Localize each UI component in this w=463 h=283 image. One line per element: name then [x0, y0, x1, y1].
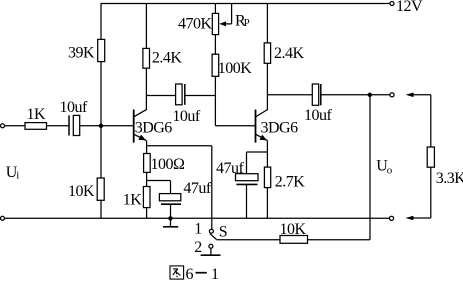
- svg-text:3DG6: 3DG6: [261, 120, 299, 137]
- capacitor C3 10uf output: [312, 84, 318, 105]
- resistor R 100K: [212, 54, 219, 76]
- terminal output top: [390, 93, 394, 97]
- wire C3 to output terminal: [321, 94, 390, 96]
- potentiometer RP wiper arrow: [231, 4, 233, 24]
- wire collector2 to C3: [267, 94, 312, 96]
- capacitor C4 47uf plates: [159, 194, 180, 201]
- svg-text:6: 6: [186, 266, 194, 283]
- capacitor C5 47uf plates: [236, 174, 259, 181]
- svg-text:2.7K: 2.7K: [275, 174, 306, 191]
- terminal +12V supply: [390, 2, 394, 6]
- capacitor C5 47uf branch wire: [246, 152, 248, 174]
- transistor Q1 3DG6: [133, 110, 135, 143]
- svg-text:39K: 39K: [68, 45, 95, 62]
- capacitor C4 47uf branch wire: [170, 181, 172, 194]
- svg-text:1K: 1K: [123, 191, 143, 208]
- svg-text:47uf: 47uf: [216, 160, 245, 177]
- wire C1 to base node: [80, 125, 134, 127]
- svg-text:2.4K: 2.4K: [274, 45, 305, 62]
- wire load column top: [430, 95, 432, 147]
- svg-text:3DG6: 3DG6: [135, 120, 173, 137]
- switch S blade: [210, 234, 217, 240]
- wire RP to 100K: [214, 35, 216, 55]
- wire load column bottom: [430, 167, 432, 218]
- svg-text:10K: 10K: [280, 221, 307, 238]
- ground symbol switch: [210, 248, 212, 255]
- resistor R 1K emitter: [143, 187, 150, 208]
- svg-text:1: 1: [211, 266, 219, 283]
- wire left bias column middle: [100, 62, 102, 178]
- wire 100ohm to 1K: [146, 172, 148, 186]
- svg-text:1: 1: [194, 221, 202, 238]
- node C4 ground junction: [168, 216, 172, 220]
- wire left bias column bottom: [100, 200, 102, 218]
- svg-text:S: S: [219, 223, 227, 240]
- load plug arrow top: [406, 93, 414, 98]
- resistor R 10K lower bias: [97, 178, 104, 200]
- resistor R 39K: [98, 39, 105, 61]
- wire C5 to rail: [246, 184, 248, 218]
- resistor R 3.3K load: [427, 147, 434, 167]
- svg-text:2.4K: 2.4K: [152, 49, 183, 66]
- wire output column vertical: [369, 95, 371, 240]
- wire emitter1 to switch branch: [147, 145, 212, 147]
- svg-text:3.3K: 3.3K: [436, 170, 463, 187]
- wire collector column stage2 bottom: [266, 63, 268, 110]
- resistor R 10K feedback: [280, 236, 308, 244]
- svg-text:12V: 12V: [396, 0, 423, 15]
- wire C2 to base2 column: [185, 95, 216, 97]
- svg-text:10uf: 10uf: [60, 99, 89, 116]
- capacitor C1 10uf input: [68, 115, 70, 135]
- wire input to 1K: [5, 125, 26, 127]
- svg-text:47uf: 47uf: [183, 180, 212, 197]
- resistor R 1K input: [25, 123, 47, 130]
- load plug arrow bottom: [413, 217, 431, 219]
- transistor Q2 3DG6: [255, 110, 257, 143]
- wire +12V top rail: [101, 3, 391, 5]
- svg-text:o: o: [387, 165, 393, 177]
- resistor R 2.4K stage1: [143, 48, 150, 68]
- svg-text:470K: 470K: [178, 16, 213, 33]
- switch S contact 1: [209, 229, 213, 233]
- wire 1K to C1: [47, 125, 70, 127]
- wire collector column stage1 bottom: [145, 68, 147, 110]
- svg-text:10uf: 10uf: [304, 107, 333, 124]
- capacitor C2 10uf coupling: [176, 84, 183, 105]
- potentiometer RP 470K body: [212, 13, 218, 34]
- wire bottom ground rail: [5, 217, 390, 219]
- wire emitter2 down: [266, 141, 268, 168]
- svg-text:10K: 10K: [68, 183, 95, 200]
- wire RP column top: [214, 4, 216, 14]
- wire base Q2 horizontal: [215, 125, 255, 127]
- wire collector node to C2: [146, 95, 175, 97]
- wire left bias column top: [100, 4, 102, 40]
- wire node to C4 branch: [147, 180, 171, 182]
- svg-text:P: P: [244, 17, 250, 29]
- svg-text:2: 2: [194, 239, 202, 256]
- terminal output bottom: [389, 216, 393, 220]
- terminal input bottom: [1, 216, 5, 220]
- svg-text:100K: 100K: [218, 60, 253, 77]
- wire emitter2 to C5 branch: [247, 151, 268, 153]
- wire emitter1 down: [146, 141, 148, 154]
- wire switch branch vertical: [211, 146, 213, 230]
- wire C4 to rail: [170, 204, 172, 218]
- label caption figure 6-1: [170, 266, 184, 279]
- wire collector column stage2 top: [266, 4, 268, 43]
- wire 1K to ground rail: [146, 208, 148, 219]
- wire feedback to output column: [308, 239, 371, 241]
- svg-text:i: i: [16, 170, 19, 182]
- resistor R 2.4K stage2: [264, 43, 270, 63]
- wire 2.7K to rail: [266, 188, 268, 219]
- wire feedback from switch: [216, 239, 280, 241]
- svg-text:10uf: 10uf: [172, 108, 201, 125]
- resistor R 100ohm: [144, 154, 151, 173]
- svg-text:1K: 1K: [27, 106, 47, 123]
- node base Q1 junction: [99, 124, 103, 128]
- node output junction: [368, 93, 372, 97]
- resistor R 2.7K: [264, 167, 270, 188]
- wire collector column stage1 top: [145, 4, 147, 49]
- terminal input Ui top: [1, 124, 5, 128]
- switch S contact 2: [209, 244, 213, 248]
- svg-text:100Ω: 100Ω: [151, 156, 186, 173]
- wire 100K down to base Q2: [214, 76, 216, 126]
- ground symbol left: [170, 218, 172, 226]
